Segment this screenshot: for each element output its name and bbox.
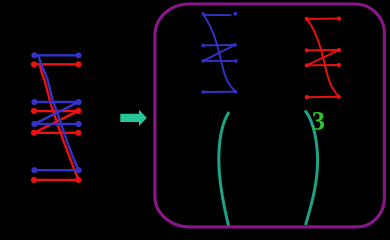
svg-text:3: 3 [312,106,325,136]
